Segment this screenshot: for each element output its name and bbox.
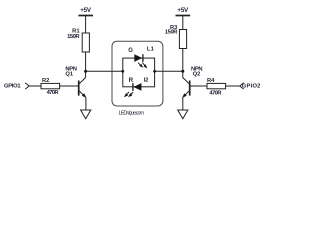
svg-text:+5V: +5V — [177, 7, 189, 14]
svg-text:+5V: +5V — [80, 7, 92, 14]
svg-text:R2: R2 — [42, 78, 49, 84]
svg-text:GPIO2: GPIO2 — [242, 84, 261, 90]
svg-text:150R: 150R — [67, 34, 80, 40]
svg-text:L2: L2 — [144, 77, 149, 83]
svg-text:150R: 150R — [165, 30, 178, 36]
svg-text:Q2: Q2 — [193, 71, 201, 77]
svg-text:R: R — [129, 78, 134, 84]
svg-text:470R: 470R — [47, 90, 60, 96]
svg-text:R4: R4 — [207, 78, 215, 84]
svg-text:LEDnique.com: LEDnique.com — [119, 110, 145, 116]
svg-text:G: G — [128, 48, 133, 54]
svg-text:GPIO1: GPIO1 — [4, 84, 21, 90]
svg-text:470R: 470R — [209, 91, 222, 97]
svg-text:L1: L1 — [147, 46, 155, 52]
svg-text:Q1: Q1 — [65, 71, 74, 77]
